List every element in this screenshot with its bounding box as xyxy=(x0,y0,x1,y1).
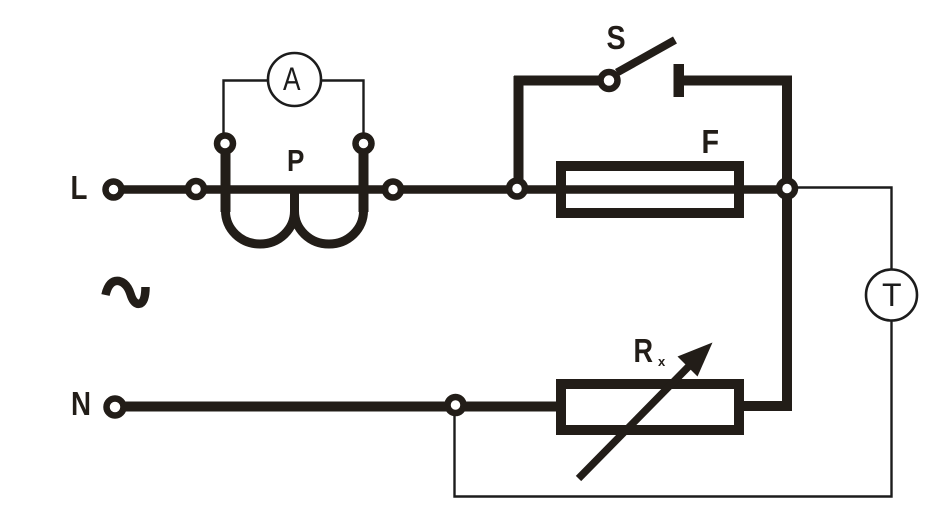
svg-text:F: F xyxy=(702,123,720,160)
svg-text:R: R xyxy=(634,334,654,370)
svg-text:A: A xyxy=(283,63,301,98)
svg-text:P: P xyxy=(287,144,304,179)
svg-text:N: N xyxy=(71,386,91,423)
svg-text:T: T xyxy=(882,277,902,313)
svg-text:S: S xyxy=(607,19,626,56)
svg-text:L: L xyxy=(71,170,88,207)
svg-text:x: x xyxy=(658,354,666,369)
